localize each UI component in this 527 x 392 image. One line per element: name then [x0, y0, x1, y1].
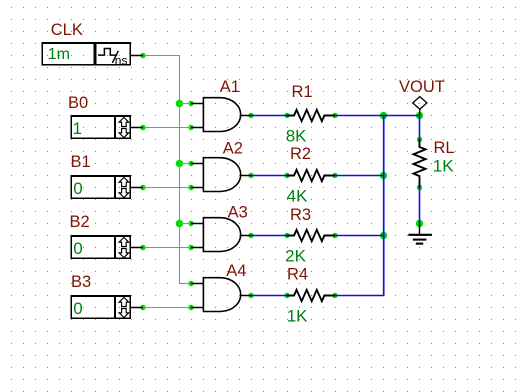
svg-text:CLK: CLK: [51, 21, 83, 39]
junction dot CLK/A3 top input: [176, 220, 183, 227]
svg-text:R3: R3: [290, 206, 311, 224]
wire A2 bottom input pin: [191, 187, 204, 189]
wire B3 switch pin stub: [131, 307, 144, 309]
wire CLK pin stub from generator box: [131, 55, 144, 57]
junction dot summing node at R1 output: [380, 112, 387, 119]
wire A4 output to R4: [251, 295, 287, 297]
wire A1 output pin: [240, 115, 251, 117]
pin dot RL top: [417, 137, 422, 142]
wire B1 switch pin stub: [131, 187, 144, 189]
pin dot B0 switch output: [140, 125, 145, 130]
pin dot R4 right: [332, 293, 337, 298]
wire B2 to A3 bottom input: [143, 247, 191, 249]
pin dot A2 bottom input: [188, 185, 193, 190]
pin dot A3 top input: [188, 221, 193, 226]
pin dot R1 left: [284, 113, 289, 118]
pin dot A4 top input: [188, 281, 193, 286]
wire B2 switch pin stub: [131, 247, 144, 249]
svg-text:A2: A2: [223, 140, 243, 158]
wire A3 bottom input pin: [191, 247, 204, 249]
resistor RL (load): [414, 140, 426, 188]
signal generator V1 CLK box: [41, 42, 131, 66]
wire CLK stub to A2 top input: [180, 163, 192, 165]
AND gate A1: [203, 98, 240, 132]
resistor R1: [287, 110, 335, 121]
AND gate A4: [203, 278, 240, 312]
svg-text:R1: R1: [291, 83, 312, 101]
svg-text:1K: 1K: [433, 157, 454, 176]
svg-text:B3: B3: [71, 273, 91, 291]
svg-text:VOUT: VOUT: [399, 78, 445, 96]
pin dot A4 output: [248, 293, 253, 298]
digital switch B2 box: [71, 235, 132, 259]
wire R4 to summing bus: [335, 295, 385, 297]
wire A2 output to R2: [251, 175, 287, 177]
pin dot A1 output: [248, 113, 253, 118]
wire A3 top input pin: [191, 223, 204, 225]
pin dot B3 switch output: [140, 305, 145, 310]
resistor R3: [287, 230, 335, 241]
pin dot A1 top input: [188, 101, 193, 106]
AND gate A2: [203, 158, 240, 192]
svg-text:1K: 1K: [287, 307, 308, 326]
junction dot CLK/A2 top input: [176, 160, 183, 167]
pin dot R1 right: [332, 113, 337, 118]
svg-text:RL: RL: [433, 139, 454, 157]
pin dot R3 right: [332, 233, 337, 238]
wire B3 to A4 bottom input: [143, 307, 191, 309]
junction dot ground connection: [416, 220, 423, 227]
wire CLK horizontal from generator to corner: [143, 55, 180, 57]
wire A1 top input pin: [191, 103, 204, 105]
pin dot A2 top input: [188, 161, 193, 166]
wire A1 bottom input pin: [191, 127, 204, 129]
svg-text:0: 0: [73, 299, 82, 318]
wire A1 output to R1: [251, 115, 287, 117]
svg-text:1m: 1m: [48, 46, 70, 63]
wire A2 output pin: [240, 175, 251, 177]
pin dot A3 bottom input: [188, 245, 193, 250]
wire B0 switch pin stub: [131, 127, 144, 129]
wire R1 to summing bus: [335, 115, 385, 117]
wire summing bus to VOUT node: [384, 115, 420, 117]
wire R2 to summing bus: [335, 175, 385, 177]
AND gate A3: [203, 218, 240, 252]
svg-text:2K: 2K: [285, 247, 306, 266]
junction dot CLK/A1 top input: [176, 100, 183, 107]
pin dot CLK generator output: [140, 53, 145, 58]
svg-text:0: 0: [73, 179, 82, 198]
junction dot summing node at R2 output: [380, 172, 387, 179]
wire A4 bottom input pin: [191, 307, 204, 309]
wire A4 top input pin: [191, 283, 204, 285]
ground symbol: [408, 224, 432, 244]
svg-text:A3: A3: [228, 204, 248, 222]
resistor R2: [287, 170, 335, 181]
svg-text:R2: R2: [290, 145, 311, 163]
pin dot A3 output: [248, 233, 253, 238]
wire CLK stub to A4 top input: [180, 283, 192, 285]
wire CLK stub to A1 top input: [180, 103, 192, 105]
svg-text:8K: 8K: [286, 126, 307, 145]
svg-text:A1: A1: [220, 78, 240, 96]
pin dot A1 bottom input: [188, 125, 193, 130]
pin dot R2 right: [332, 173, 337, 178]
svg-text:0: 0: [73, 239, 82, 258]
svg-text:ns: ns: [115, 53, 128, 67]
wire B1 to A2 bottom input: [143, 187, 191, 189]
pin dot A4 bottom input: [188, 305, 193, 310]
svg-text:R4: R4: [287, 266, 308, 284]
svg-text:4K: 4K: [287, 187, 308, 206]
svg-text:B0: B0: [68, 94, 88, 112]
pin dot RL bottom: [417, 185, 422, 190]
wire A3 output to R3: [251, 235, 287, 237]
wire RL bottom down to ground: [419, 188, 421, 224]
pin dot R4 left: [284, 293, 289, 298]
svg-text:B2: B2: [69, 213, 89, 231]
terminal VOUT diamond: [413, 97, 427, 116]
resistor R4: [287, 290, 335, 301]
pin dot B1 switch output: [140, 185, 145, 190]
wire A2 top input pin: [191, 163, 204, 165]
wire summing bus vertical: [383, 115, 385, 296]
wire R3 to summing bus: [335, 235, 385, 237]
wire B0 to A1 bottom input: [143, 127, 191, 129]
junction dot summing node at R3 output: [380, 232, 387, 239]
pin dot A2 output: [248, 173, 253, 178]
wire VOUT node down to RL top: [419, 116, 421, 140]
svg-text:1: 1: [73, 119, 82, 138]
svg-text:B1: B1: [71, 153, 91, 171]
digital switch B1 box: [71, 175, 132, 199]
pin dot R2 left: [284, 173, 289, 178]
pin dot B2 switch output: [140, 245, 145, 250]
junction dot VOUT node: [416, 112, 423, 119]
digital switch B3 box: [71, 295, 132, 319]
wire CLK stub to A3 top input: [180, 223, 192, 225]
pin dot R3 left: [284, 233, 289, 238]
wire CLK vertical bus down to A4: [179, 55, 181, 284]
wire A3 output pin: [240, 235, 251, 237]
digital switch B0 box: [71, 115, 132, 139]
wire A4 output pin: [240, 295, 251, 297]
svg-text:A4: A4: [226, 262, 246, 280]
